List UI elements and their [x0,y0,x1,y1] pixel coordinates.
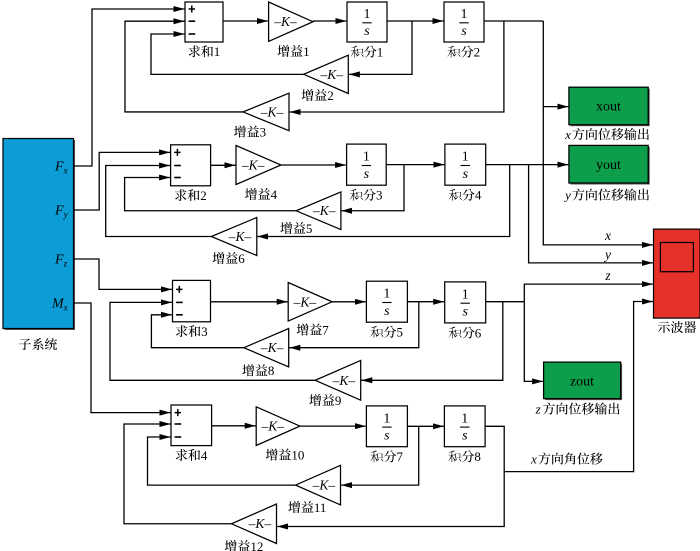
wire to scope x [543,107,653,245]
wire to scope y [529,165,653,263]
wire gain8 to sum3 [151,315,244,348]
svg-text:yout: yout [596,158,621,173]
wire int3 to int4 [386,164,444,166]
svg-text:s: s [461,24,467,39]
label 示波器 [658,321,696,333]
wire gain12 to sum4 [124,424,232,524]
svg-text:s: s [462,305,468,320]
wire int4 to yout [486,164,569,166]
svg-text:–K–: –K– [273,14,297,29]
svg-text:s: s [364,167,370,182]
integrator block 积分5 (1/s) [366,281,407,322]
wire gain7 to int5 [332,301,366,303]
svg-text:s: s [384,304,390,319]
svg-text:5: 5 [306,221,313,236]
label z方向位移输出 [535,402,620,417]
svg-text:y: y [603,247,611,262]
svg-text:1: 1 [383,411,390,426]
svg-text:–K–: –K– [241,158,265,173]
svg-text:1: 1 [377,45,384,60]
wire gain10 to int7 [300,425,366,427]
gain block 增益4 (-K-) [236,146,281,185]
svg-text:4: 4 [201,448,208,463]
svg-text:7: 7 [322,323,329,338]
svg-text:–K–: –K– [260,340,284,355]
svg-text:–K–: –K– [248,516,272,531]
wire int1 to int2 [387,20,444,22]
wire to scope z [524,284,653,302]
svg-text:10: 10 [291,448,304,463]
svg-text:–K–: –K– [260,104,284,119]
scope block 示波器 [654,229,700,318]
gain block 增益8 (-K-) [244,329,289,367]
svg-text:x: x [604,228,611,243]
wire branch to gain9 [361,302,503,381]
gain block 增益12 (-K-) [232,504,277,544]
integrator block 积分3 (1/s) [347,144,387,185]
integrator block 积分6 (1/s) [445,282,486,323]
wire Fz to sum3 + [74,259,173,289]
gain block 增益5 (-K-) [296,192,341,230]
svg-text:6: 6 [475,325,482,340]
gain block 增益10 (-K-) [256,407,300,446]
integrator block 积分7 (1/s) [366,406,407,447]
gain block 增益7 (-K-) [288,283,332,322]
svg-text:1: 1 [303,44,310,59]
subsystem block 子系统 [3,139,75,331]
gain block 增益11 (-K-) [296,465,341,505]
label x方向角位移 [530,452,603,467]
sum block 求和4 [171,405,212,446]
svg-text:1: 1 [214,44,221,59]
svg-text:4: 4 [475,188,482,203]
svg-text:s: s [364,24,370,39]
wire int8 to gain12 [277,426,504,526]
gain block 增益2 (-K-) [304,55,349,93]
wire branch to gain11 [341,426,419,485]
wire gain5 to sum2 [125,178,297,211]
svg-text:–K–: –K– [332,373,356,388]
wire gain1 to int1 [313,20,347,22]
svg-text:–K–: –K– [312,203,336,218]
wire to xout [543,21,568,107]
gain block 增益9 (-K-) [315,360,361,400]
output block zout [544,362,623,400]
wire gain3 to sum1 [125,21,243,112]
wire Mx to sum4 + [74,303,171,413]
wire branch to gain8 [289,302,419,348]
label y方向位移输出 [563,188,649,203]
wire gain4 to int3 [281,164,346,166]
wire to scope angular [504,302,653,472]
svg-text:xout: xout [596,100,621,115]
label 子系统 [19,338,57,350]
wire branch to gain2 [349,21,412,74]
svg-text:z: z [604,268,611,283]
integrator block 积分2 (1/s) [444,2,484,42]
wire int6 out [486,301,525,303]
svg-text:3: 3 [201,324,208,339]
svg-text:1: 1 [462,150,469,165]
svg-text:9: 9 [335,393,342,408]
svg-text:2: 2 [327,88,334,103]
svg-text:2: 2 [474,45,481,60]
wire gain11 to sum4 [148,437,296,485]
svg-text:3: 3 [376,188,383,203]
svg-text:1: 1 [363,150,370,165]
svg-text:1: 1 [461,411,468,426]
wire gain9 to sum3 [110,302,315,380]
svg-text:8: 8 [474,449,481,464]
svg-text:s: s [462,429,468,444]
svg-text:2: 2 [200,188,207,203]
integrator block 积分4 (1/s) [445,144,486,185]
svg-text:–K–: –K– [261,419,285,434]
svg-text:8: 8 [268,363,275,378]
integrator block 积分8 (1/s) [444,406,485,447]
svg-text:5: 5 [397,325,404,340]
svg-text:zout: zout [570,375,594,390]
svg-text:z: z [535,402,541,417]
wire Fx to sum1 + [74,9,185,166]
svg-text:y: y [563,188,571,203]
wire to zout [524,302,543,382]
svg-text:–K–: –K– [228,229,252,244]
wire int5 to int6 [407,301,444,303]
svg-text:1: 1 [461,7,468,22]
svg-text:x: x [530,452,537,467]
wire sum1 to gain1 [223,20,268,22]
wire gain2 to sum1 [151,34,304,74]
wire Fy to sum2 + [74,152,171,210]
wire int7 to int8 [407,425,444,427]
svg-text:x: x [564,127,571,142]
svg-text:4: 4 [271,187,278,202]
wire branch to gain5 [341,165,404,211]
gain block 增益3 (-K-) [243,93,289,131]
svg-text:6: 6 [238,251,245,266]
svg-text:s: s [463,167,469,182]
gain block 增益1 (-K-) [269,2,313,41]
sum block 求和1 [185,2,223,42]
svg-text:1: 1 [462,287,469,302]
svg-text:3: 3 [260,125,267,140]
wire sum4 to gain10 [212,425,256,427]
svg-text:1: 1 [383,287,390,302]
svg-text:12: 12 [250,539,263,551]
sum block 求和3 [173,280,211,321]
svg-text:–K–: –K– [320,67,344,82]
output block yout [569,145,650,184]
wire sum2 to gain4 [211,164,236,166]
output block xout [569,87,650,126]
wire gain6 to sum2 [106,166,212,237]
svg-text:s: s [384,429,390,444]
label x方向位移输出 [564,127,649,142]
svg-text:–K–: –K– [293,294,317,309]
wire sum3 to gain7 [211,301,288,303]
gain block 增益6 (-K-) [211,218,256,256]
svg-text:–K–: –K– [312,478,336,493]
wire int2 out [484,20,543,22]
svg-text:1: 1 [364,7,371,22]
svg-text:7: 7 [397,449,404,464]
integrator block 积分1 (1/s) [347,2,387,42]
svg-text:11: 11 [314,500,327,515]
wire branch to gain3 [290,21,504,112]
sum block 求和2 [171,145,211,186]
wire branch to gain6 [257,165,510,237]
